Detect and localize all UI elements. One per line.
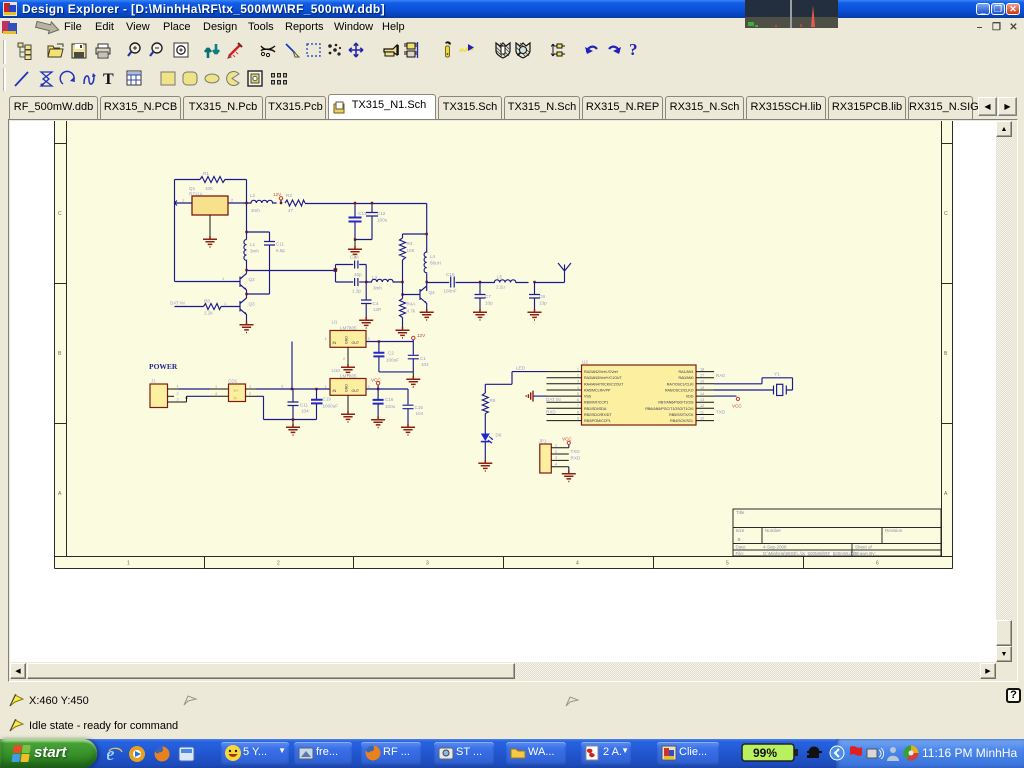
svg-text:C: C bbox=[58, 211, 62, 217]
svg-text:RB0/INT/CCP1: RB0/INT/CCP1 bbox=[584, 401, 608, 405]
wire C2 C1 ground link bbox=[379, 372, 420, 387]
svg-text:TXD: TXD bbox=[716, 409, 726, 414]
capacitor C7 bbox=[475, 281, 494, 309]
svg-text:DAT IN: DAT IN bbox=[170, 301, 185, 306]
svg-text:JP1: JP1 bbox=[539, 439, 547, 444]
svg-text:RA3/AN3/Vref+/C1OUT: RA3/AN3/Vref+/C1OUT bbox=[584, 376, 623, 380]
svg-text:?: ? bbox=[629, 40, 638, 59]
svg-text:RB6/AN5/PGC/T1OSO/T1CKI: RB6/AN5/PGC/T1OSO/T1CKI bbox=[645, 407, 693, 411]
wire J1 pin1 bbox=[168, 385, 229, 390]
svg-text:6: 6 bbox=[876, 561, 879, 567]
svg-text:C2: C2 bbox=[388, 351, 394, 356]
svg-text:16: 16 bbox=[700, 380, 704, 384]
power VCC JP1 bbox=[562, 437, 572, 448]
power VCC VDD bbox=[732, 397, 742, 408]
capacitor C19 bbox=[311, 388, 338, 420]
svg-text:VDD: VDD bbox=[686, 395, 694, 399]
capacitor C4 bbox=[361, 282, 381, 317]
svg-text:RA4/AN4/T0CKI/C2OUT: RA4/AN4/T0CKI/C2OUT bbox=[584, 382, 624, 386]
svg-text:R4A: R4A bbox=[407, 302, 417, 307]
svg-text:V-: V- bbox=[234, 396, 239, 401]
inductor L3 bbox=[365, 275, 402, 291]
svg-text:1: 1 bbox=[127, 561, 130, 567]
capacitor C10 bbox=[427, 272, 480, 294]
svg-text:RA5/MCLR/VPP: RA5/MCLR/VPP bbox=[584, 389, 611, 393]
svg-text:VSS: VSS bbox=[584, 395, 592, 399]
svg-text:C11: C11 bbox=[300, 403, 309, 408]
svg-text:CD1: CD1 bbox=[228, 379, 238, 384]
svg-text:VCC: VCC bbox=[371, 378, 381, 383]
svg-text:Drawn By:: Drawn By: bbox=[855, 551, 876, 556]
wire L4 to collector bbox=[426, 274, 428, 291]
svg-text:1: 1 bbox=[224, 302, 226, 306]
net label DAT IN pin6 bbox=[546, 397, 561, 402]
svg-text:RA0/AN0: RA0/AN0 bbox=[679, 376, 694, 380]
tray icons bbox=[829, 742, 921, 764]
svg-text:L4: L4 bbox=[430, 254, 436, 259]
vertical node wire bbox=[246, 180, 248, 240]
ground under C7 bbox=[473, 309, 487, 320]
svg-text:GND: GND bbox=[345, 384, 349, 392]
ground under C16 bbox=[371, 417, 385, 428]
ground Q4 emitter bbox=[420, 309, 434, 320]
svg-text:15: 15 bbox=[700, 386, 704, 390]
svg-text:C11: C11 bbox=[276, 242, 285, 247]
resistor R4 bbox=[400, 234, 416, 282]
U2 left pins bbox=[547, 367, 582, 420]
wire CD1 minus to ground rail bbox=[246, 392, 317, 420]
svg-text:10: 10 bbox=[700, 416, 704, 420]
svg-text:RA6/OSC2/CLKO: RA6/OSC2/CLKO bbox=[665, 389, 694, 393]
svg-text:3: 3 bbox=[177, 398, 179, 402]
node collector junction bbox=[426, 281, 428, 283]
wire J1 pin2 bbox=[168, 392, 229, 397]
svg-text:OUT: OUT bbox=[352, 341, 360, 345]
svg-text:100u: 100u bbox=[377, 218, 388, 223]
svg-text:5: 5 bbox=[726, 561, 729, 567]
wire top rail bbox=[305, 204, 427, 252]
capacitor C16 bbox=[373, 389, 396, 417]
svg-text:RA0: RA0 bbox=[716, 373, 725, 378]
battery + plug bbox=[741, 743, 825, 763]
svg-text:Sheet of: Sheet of bbox=[855, 545, 873, 550]
svg-text:3: 3 bbox=[368, 337, 370, 341]
ground under LED bbox=[478, 442, 492, 471]
svg-text:RB4/SCK/SCL: RB4/SCK/SCL bbox=[670, 419, 693, 423]
earth ground VSS bbox=[526, 391, 546, 402]
transistor Q4 bbox=[420, 286, 435, 309]
svg-text:12V: 12V bbox=[273, 192, 282, 197]
svg-text:12: 12 bbox=[700, 404, 704, 408]
svg-text:Q4: Q4 bbox=[429, 290, 436, 295]
svg-text:RB2/SDO/RX/DT: RB2/SDO/RX/DT bbox=[584, 413, 612, 417]
net label TXD pin11 bbox=[716, 409, 726, 414]
svg-text:14: 14 bbox=[700, 392, 704, 396]
svg-text:5: 5 bbox=[577, 392, 579, 396]
ground under Q1 bbox=[203, 215, 217, 247]
svg-text:104: 104 bbox=[421, 362, 429, 367]
svg-text:J1: J1 bbox=[151, 379, 156, 384]
wire pin2 Q1 bbox=[228, 199, 247, 204]
svg-text:POWER: POWER bbox=[149, 362, 178, 371]
svg-text:U2: U2 bbox=[582, 360, 588, 365]
svg-text:3: 3 bbox=[426, 561, 429, 567]
svg-text:L3: L3 bbox=[372, 275, 378, 280]
ground Q3 emitter bbox=[240, 322, 254, 333]
ground under R4A bbox=[396, 327, 410, 338]
svg-text:C10: C10 bbox=[446, 272, 455, 277]
svg-text:1: 1 bbox=[325, 385, 327, 389]
capacitor C1B 1.3p bbox=[336, 270, 367, 294]
wire to C1A block bbox=[247, 268, 338, 272]
capacitor C1 bbox=[408, 342, 429, 372]
svg-text:U1: U1 bbox=[332, 320, 338, 325]
transistor Q3 bbox=[240, 298, 255, 322]
svg-text:Number: Number bbox=[765, 528, 782, 533]
svg-text:1: 1 bbox=[249, 385, 251, 389]
wire J1 pin3 bbox=[168, 396, 188, 402]
wire Q2 collector node bbox=[245, 263, 247, 274]
ground U10 gnd bbox=[341, 395, 355, 422]
svg-text:104: 104 bbox=[416, 411, 424, 416]
resistor R8 bbox=[175, 299, 241, 316]
svg-text:18: 18 bbox=[700, 367, 704, 371]
net label LED bbox=[516, 366, 526, 371]
svg-text:100u: 100u bbox=[385, 404, 396, 409]
U2 right pin labels bbox=[645, 370, 694, 423]
svg-text:1: 1 bbox=[577, 367, 579, 371]
svg-text:100uF: 100uF bbox=[386, 358, 399, 363]
wire R4 top bbox=[403, 233, 428, 235]
svg-text:2: 2 bbox=[343, 357, 345, 361]
capacitor C11 bbox=[247, 232, 286, 294]
svg-text:RB1/SDI/SDA: RB1/SDI/SDA bbox=[584, 407, 607, 411]
net label RXD JP1 bbox=[571, 455, 581, 460]
capacitor C12 bbox=[355, 202, 388, 240]
svg-text:L2: L2 bbox=[250, 193, 256, 198]
wire U1 out bbox=[366, 341, 413, 343]
svg-text:R4: R4 bbox=[407, 241, 413, 246]
svg-text:10K: 10K bbox=[205, 186, 214, 191]
svg-text:3: 3 bbox=[281, 385, 283, 389]
connector JP1 bbox=[539, 439, 552, 474]
capacitor C15 bbox=[403, 389, 424, 424]
svg-text:3: 3 bbox=[555, 456, 557, 460]
svg-text:V+: V+ bbox=[234, 388, 240, 393]
power 12V bbox=[273, 192, 283, 204]
svg-text:Title: Title bbox=[736, 510, 745, 515]
svg-text:U10: U10 bbox=[332, 368, 341, 373]
svg-text:T: T bbox=[103, 71, 114, 88]
U2 left pin labels bbox=[584, 370, 624, 423]
svg-text:1: 1 bbox=[555, 444, 557, 448]
svg-text:RB5/SS/TX/CK: RB5/SS/TX/CK bbox=[669, 413, 694, 417]
ground under C8 bbox=[528, 309, 542, 320]
svg-text:1: 1 bbox=[177, 385, 179, 389]
svg-text:RB3/PGM/CCP1: RB3/PGM/CCP1 bbox=[584, 419, 611, 423]
svg-text:R1: R1 bbox=[203, 171, 209, 176]
svg-text:IN: IN bbox=[333, 341, 337, 345]
ground under C4 bbox=[359, 317, 373, 328]
net label RXD pin8 bbox=[546, 409, 556, 414]
crystal Q1 bbox=[189, 186, 228, 215]
svg-text:Q2: Q2 bbox=[249, 277, 256, 282]
svg-text:1: 1 bbox=[222, 277, 224, 281]
resistor R1 bbox=[200, 171, 226, 191]
svg-text:B: B bbox=[738, 537, 741, 542]
transistor Q2 bbox=[222, 274, 255, 291]
svg-text:Date:: Date: bbox=[736, 545, 747, 550]
wire pin1 to R6 bbox=[485, 372, 546, 393]
svg-text:6.8p: 6.8p bbox=[276, 248, 285, 253]
svg-text:4: 4 bbox=[576, 561, 579, 567]
sheet frame border bbox=[55, 121, 953, 569]
svg-text:R6: R6 bbox=[490, 398, 496, 403]
svg-text:e: e bbox=[107, 744, 115, 764]
svg-text:RXD: RXD bbox=[546, 409, 556, 414]
svg-text:11: 11 bbox=[700, 410, 704, 414]
svg-text:1000uF: 1000uF bbox=[323, 404, 339, 409]
capacitor C14 bbox=[288, 389, 310, 420]
svg-text:12P: 12P bbox=[373, 307, 381, 312]
svg-text:2: 2 bbox=[577, 374, 579, 378]
ground JP1 pin4 bbox=[562, 467, 576, 482]
svg-text:RA2/AN2/Vref-/CVref: RA2/AN2/Vref-/CVref bbox=[584, 370, 618, 374]
svg-text:Q1: Q1 bbox=[189, 186, 196, 191]
svg-text:D6: D6 bbox=[496, 433, 502, 438]
svg-text:L1: L1 bbox=[250, 242, 256, 247]
svg-text:6: 6 bbox=[577, 398, 579, 402]
svg-text:C19: C19 bbox=[323, 397, 332, 402]
capacitor C2 bbox=[373, 340, 399, 372]
schematic sheet bbox=[54, 121, 953, 569]
svg-text:C: C bbox=[944, 211, 948, 217]
power VCC out bbox=[371, 378, 381, 391]
svg-text:9: 9 bbox=[577, 416, 579, 420]
svg-text:3: 3 bbox=[368, 385, 370, 389]
quick launch icons bbox=[107, 744, 201, 764]
title block bbox=[733, 509, 941, 556]
POWER label bbox=[149, 362, 178, 371]
svg-text:104: 104 bbox=[301, 409, 309, 414]
svg-text:RA1/AN1: RA1/AN1 bbox=[679, 370, 694, 374]
svg-text:2: 2 bbox=[249, 392, 251, 396]
capacitor C13 bbox=[349, 202, 367, 240]
wire OSC1 to Y1 bbox=[714, 378, 793, 390]
svg-text:RA7/OSC1/CLKI: RA7/OSC1/CLKI bbox=[667, 382, 694, 386]
svg-text:TXD: TXD bbox=[571, 449, 581, 454]
svg-text:3mh: 3mh bbox=[250, 249, 259, 254]
svg-text:Y1: Y1 bbox=[774, 372, 780, 377]
svg-text:Revision: Revision bbox=[885, 528, 903, 533]
svg-text:3: 3 bbox=[577, 380, 579, 384]
svg-text:File:: File: bbox=[736, 551, 745, 556]
LED D6 bbox=[481, 433, 502, 444]
svg-text:OUT: OUT bbox=[352, 389, 360, 393]
svg-text:2: 2 bbox=[177, 392, 179, 396]
wire OSC2 to Y1 bbox=[714, 389, 774, 391]
svg-text:2: 2 bbox=[555, 450, 557, 454]
svg-text:VCC: VCC bbox=[732, 404, 742, 409]
wire feedback loop left bbox=[175, 180, 247, 282]
svg-text:C13: C13 bbox=[358, 211, 367, 216]
net label TXD JP1 bbox=[571, 449, 581, 454]
svg-text:12V: 12V bbox=[417, 333, 426, 338]
wire VDD bbox=[714, 395, 737, 397]
regulator U10 bbox=[325, 368, 370, 395]
svg-text:R711A: R711A bbox=[189, 192, 204, 197]
svg-text:99%: 99% bbox=[753, 746, 777, 760]
svg-text:LED: LED bbox=[516, 366, 526, 371]
svg-text:C7: C7 bbox=[485, 294, 491, 299]
inductor L1 bbox=[244, 240, 259, 264]
svg-text:2: 2 bbox=[277, 561, 280, 567]
capacitor C1A bbox=[336, 255, 367, 283]
wire pin1 Q1 bbox=[175, 199, 193, 206]
svg-text:C8: C8 bbox=[539, 294, 545, 299]
svg-text:8: 8 bbox=[577, 410, 579, 414]
svg-text:47: 47 bbox=[288, 208, 294, 213]
svg-text:2.2u: 2.2u bbox=[496, 285, 505, 290]
svg-text:4: 4 bbox=[555, 463, 557, 467]
wire Q4 base bbox=[403, 294, 421, 296]
net label DAT IN bbox=[170, 301, 185, 306]
ground U1 gnd bbox=[341, 347, 355, 375]
svg-text:Q3: Q3 bbox=[249, 302, 256, 307]
svg-text:10K: 10K bbox=[407, 248, 416, 253]
crystal Y1 bbox=[774, 372, 787, 396]
svg-text:4-Sep-2008: 4-Sep-2008 bbox=[763, 545, 787, 550]
wire L1 branch vertical bbox=[245, 202, 247, 233]
svg-text:D:\MinhHa\99SE\..\tx_500MW\RF_: D:\MinhHa\99SE\..\tx_500MW\RF_500mW.ddb bbox=[763, 551, 857, 556]
wire rail up to U1 bbox=[291, 342, 293, 391]
svg-text:7: 7 bbox=[577, 404, 579, 408]
svg-text:DAT IN: DAT IN bbox=[546, 397, 561, 402]
capacitor C8 bbox=[529, 281, 547, 309]
svg-text:GND: GND bbox=[345, 336, 349, 344]
resistor R6 bbox=[482, 393, 496, 414]
svg-text:LM7805: LM7805 bbox=[340, 374, 357, 379]
svg-text:45p: 45p bbox=[354, 272, 362, 277]
svg-text:4.7k: 4.7k bbox=[407, 309, 416, 314]
svg-text:Size: Size bbox=[736, 528, 745, 533]
MCU U2 bbox=[582, 360, 697, 426]
svg-text:IN: IN bbox=[333, 389, 337, 393]
svg-text:17: 17 bbox=[700, 374, 704, 378]
wire U10 out bbox=[366, 388, 408, 390]
svg-text:1: 1 bbox=[325, 337, 327, 341]
svg-text:1: 1 bbox=[182, 199, 184, 203]
svg-text:3mh: 3mh bbox=[373, 286, 382, 291]
resistor R2 bbox=[285, 193, 305, 213]
svg-text:R2: R2 bbox=[286, 193, 292, 198]
regulator U1 bbox=[325, 320, 370, 348]
power 12V out bbox=[412, 333, 427, 342]
connector J1 bbox=[150, 379, 168, 408]
svg-text:4: 4 bbox=[577, 386, 579, 390]
svg-text:3mh: 3mh bbox=[251, 208, 260, 213]
svg-text:68uH: 68uH bbox=[430, 261, 441, 266]
net label RA0 bbox=[716, 373, 725, 378]
wire Q2 emitter to Q3 collector bbox=[245, 290, 247, 298]
inductor L5 bbox=[480, 275, 528, 290]
svg-text:13p: 13p bbox=[539, 301, 547, 306]
svg-text:L5: L5 bbox=[497, 275, 503, 280]
wire R6 to LED bbox=[484, 414, 486, 434]
svg-text:1: 1 bbox=[215, 385, 217, 389]
svg-text:1.3p: 1.3p bbox=[352, 289, 361, 294]
svg-text:RXD: RXD bbox=[571, 455, 581, 460]
inductor L4 bbox=[424, 251, 441, 274]
ground power rail bbox=[286, 418, 300, 435]
rectifier CD1 bbox=[228, 379, 246, 402]
ground under C13/C12 bbox=[348, 238, 362, 257]
svg-text:C4: C4 bbox=[373, 301, 379, 306]
antenna bbox=[535, 263, 572, 283]
JP1 pins bbox=[551, 444, 569, 467]
svg-text:C1: C1 bbox=[420, 356, 426, 361]
svg-text:C16: C16 bbox=[385, 397, 394, 402]
svg-text:C15: C15 bbox=[415, 405, 424, 410]
svg-text:C1A: C1A bbox=[350, 255, 360, 260]
svg-text:C12: C12 bbox=[377, 211, 386, 216]
svg-text:10p: 10p bbox=[485, 301, 493, 306]
svg-text:2: 2 bbox=[231, 199, 233, 203]
ground under C15 bbox=[401, 424, 415, 435]
svg-text:RB7/AN6/PGD/T1OSI: RB7/AN6/PGD/T1OSI bbox=[658, 401, 693, 405]
svg-text:13: 13 bbox=[700, 398, 704, 402]
svg-text:100nF: 100nF bbox=[444, 289, 457, 294]
svg-text:2.2k: 2.2k bbox=[204, 311, 213, 316]
svg-text:R8: R8 bbox=[204, 299, 210, 304]
wire CD1 out rail bbox=[246, 385, 331, 390]
resistor R4A bbox=[400, 281, 417, 327]
svg-text:4: 4 bbox=[215, 392, 217, 396]
svg-text:VCC: VCC bbox=[562, 437, 572, 442]
svg-text:LM7805: LM7805 bbox=[340, 326, 357, 331]
U2 right pins bbox=[696, 367, 714, 420]
inductor L2 bbox=[247, 193, 277, 213]
